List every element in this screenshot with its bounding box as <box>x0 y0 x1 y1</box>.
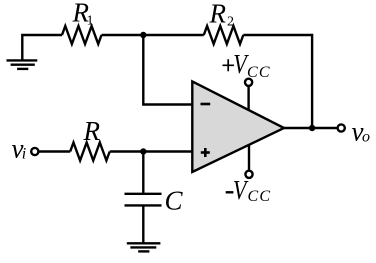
terminal vo <box>338 124 345 131</box>
label vo <box>352 117 371 147</box>
svg-text:o: o <box>362 129 370 146</box>
wire node A to inverting input <box>143 35 192 105</box>
svg-text:CC: CC <box>248 188 272 205</box>
wire ground stub to R1 <box>22 35 62 60</box>
label -Vcc <box>226 176 272 206</box>
wire +Vcc terminal to op-amp <box>247 86 249 111</box>
svg-text:R: R <box>83 116 101 146</box>
capacitor C <box>125 194 162 206</box>
resistor R <box>70 143 110 161</box>
svg-text:C: C <box>165 186 184 216</box>
wire vi to R <box>39 150 71 152</box>
label R1 <box>72 0 94 29</box>
label +Vcc <box>223 50 271 81</box>
terminal +Vcc <box>245 79 252 86</box>
svg-text:1: 1 <box>87 14 94 29</box>
ground (top-left) <box>7 60 38 69</box>
wire op-amp to -Vcc terminal <box>248 144 250 171</box>
node B junction dot <box>140 148 146 154</box>
wire R2 to output node <box>243 35 312 128</box>
wire R to noninverting input <box>110 150 193 152</box>
label R2 <box>209 0 235 30</box>
resistor R2 <box>204 26 244 44</box>
svg-text:R: R <box>209 0 227 29</box>
op-amp noninverting pin plus <box>201 148 210 157</box>
svg-text:i: i <box>22 146 26 163</box>
wire R1 to R2 through node A <box>102 34 204 36</box>
wire capacitor to ground <box>142 205 144 243</box>
node A junction dot <box>140 32 146 38</box>
node output junction dot <box>309 125 315 131</box>
op-amp U1 <box>192 81 284 172</box>
ground (below C) <box>127 243 161 251</box>
resistor R1 <box>62 26 102 44</box>
svg-text:2: 2 <box>227 15 234 30</box>
terminal -Vcc <box>245 171 252 178</box>
wire node B to capacitor <box>142 152 144 194</box>
wire op-amp output to vo <box>284 127 338 129</box>
label vi <box>12 134 27 164</box>
svg-text:CC: CC <box>247 64 271 81</box>
op-amp inverting pin minus <box>201 103 211 106</box>
terminal vi <box>31 148 38 155</box>
